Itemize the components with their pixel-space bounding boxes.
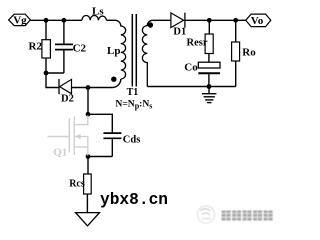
transistor Q1 (MOSFET, grey) (48, 116, 88, 156)
junction node: R2 top (44, 18, 49, 23)
svg-text:R2: R2 (29, 41, 43, 53)
junction node: source (86, 154, 91, 159)
svg-text:Vo: Vo (251, 15, 264, 27)
wire: switch node down to drain (87, 88, 89, 115)
inductor Ls (82, 15, 107, 20)
junction node: clamp (44, 71, 49, 76)
wire: D1 cathode to Vo (185, 19, 246, 21)
wire: source node to Rcs (87, 157, 89, 175)
svg-text:Rcs: Rcs (69, 178, 85, 189)
svg-text:N=Np:Ns: N=Np:Ns (115, 98, 152, 110)
svg-text:Co: Co (184, 61, 198, 73)
junction node: Ro top (233, 18, 238, 23)
svg-text:Q1: Q1 (53, 146, 67, 158)
transformer primary winding Lp (116, 20, 126, 79)
wire: D2 anode to switch node (72, 87, 89, 89)
resistor R2 (42, 20, 51, 73)
svg-text:Ls: Ls (92, 5, 104, 17)
wire: Cds bottom to source node (88, 156, 112, 158)
wire: Ls to transformer primary (107, 19, 116, 21)
junction node: C2 top (62, 18, 67, 23)
watermark text (Chinese, grey blocks) (222, 210, 273, 220)
svg-text:Ro: Ro (242, 47, 256, 59)
junction node: snubber/primary (86, 85, 91, 90)
junction node: Resr top (207, 18, 212, 23)
transformer secondary winding Ns (142, 20, 152, 86)
diode D2 (59, 79, 72, 94)
capacitor C2 (55, 20, 73, 73)
junction node: drain (86, 112, 91, 117)
svg-text:T1: T1 (127, 87, 139, 98)
resistor Ro (232, 20, 240, 86)
output terminal Vo (246, 14, 271, 27)
diode D1 (171, 13, 185, 28)
wire: primary bottom (to Lp) (88, 79, 121, 88)
watermark logo circle (197, 206, 214, 223)
svg-text:Lp: Lp (107, 45, 120, 57)
wire: drain node to Cds (88, 114, 112, 133)
ground (source, open triangle) (76, 213, 100, 226)
wire: Vg to Ls (top rail) (30, 19, 82, 21)
svg-text:Vg: Vg (13, 15, 27, 27)
wire: secondary bottom rail (147, 86, 235, 88)
wire: clamp node down to D2 cathode (46, 73, 59, 88)
svg-text:Resr: Resr (187, 38, 208, 49)
wire: clamp node R2-C2 bottom (46, 72, 64, 74)
svg-text:D1: D1 (173, 27, 186, 38)
capacitor Co (electrolytic) (198, 62, 220, 86)
capacitor Cds (103, 133, 121, 156)
ground (output, multi-bar) (202, 87, 216, 103)
svg-text:ybx8.cn: ybx8.cn (100, 191, 168, 209)
wire: secondary top to D1 (153, 19, 171, 21)
svg-text:Cds: Cds (123, 134, 141, 145)
resistor Rcs (84, 174, 92, 213)
transformer T1 core (131, 14, 133, 87)
polarity dot: primary (111, 77, 116, 82)
resistor Resr (205, 20, 213, 62)
svg-text:C2: C2 (73, 42, 87, 54)
svg-text:D2: D2 (61, 93, 74, 104)
polarity dot: secondary (148, 22, 153, 27)
junction node: output ground (207, 84, 212, 89)
input terminal Vg (9, 14, 31, 27)
